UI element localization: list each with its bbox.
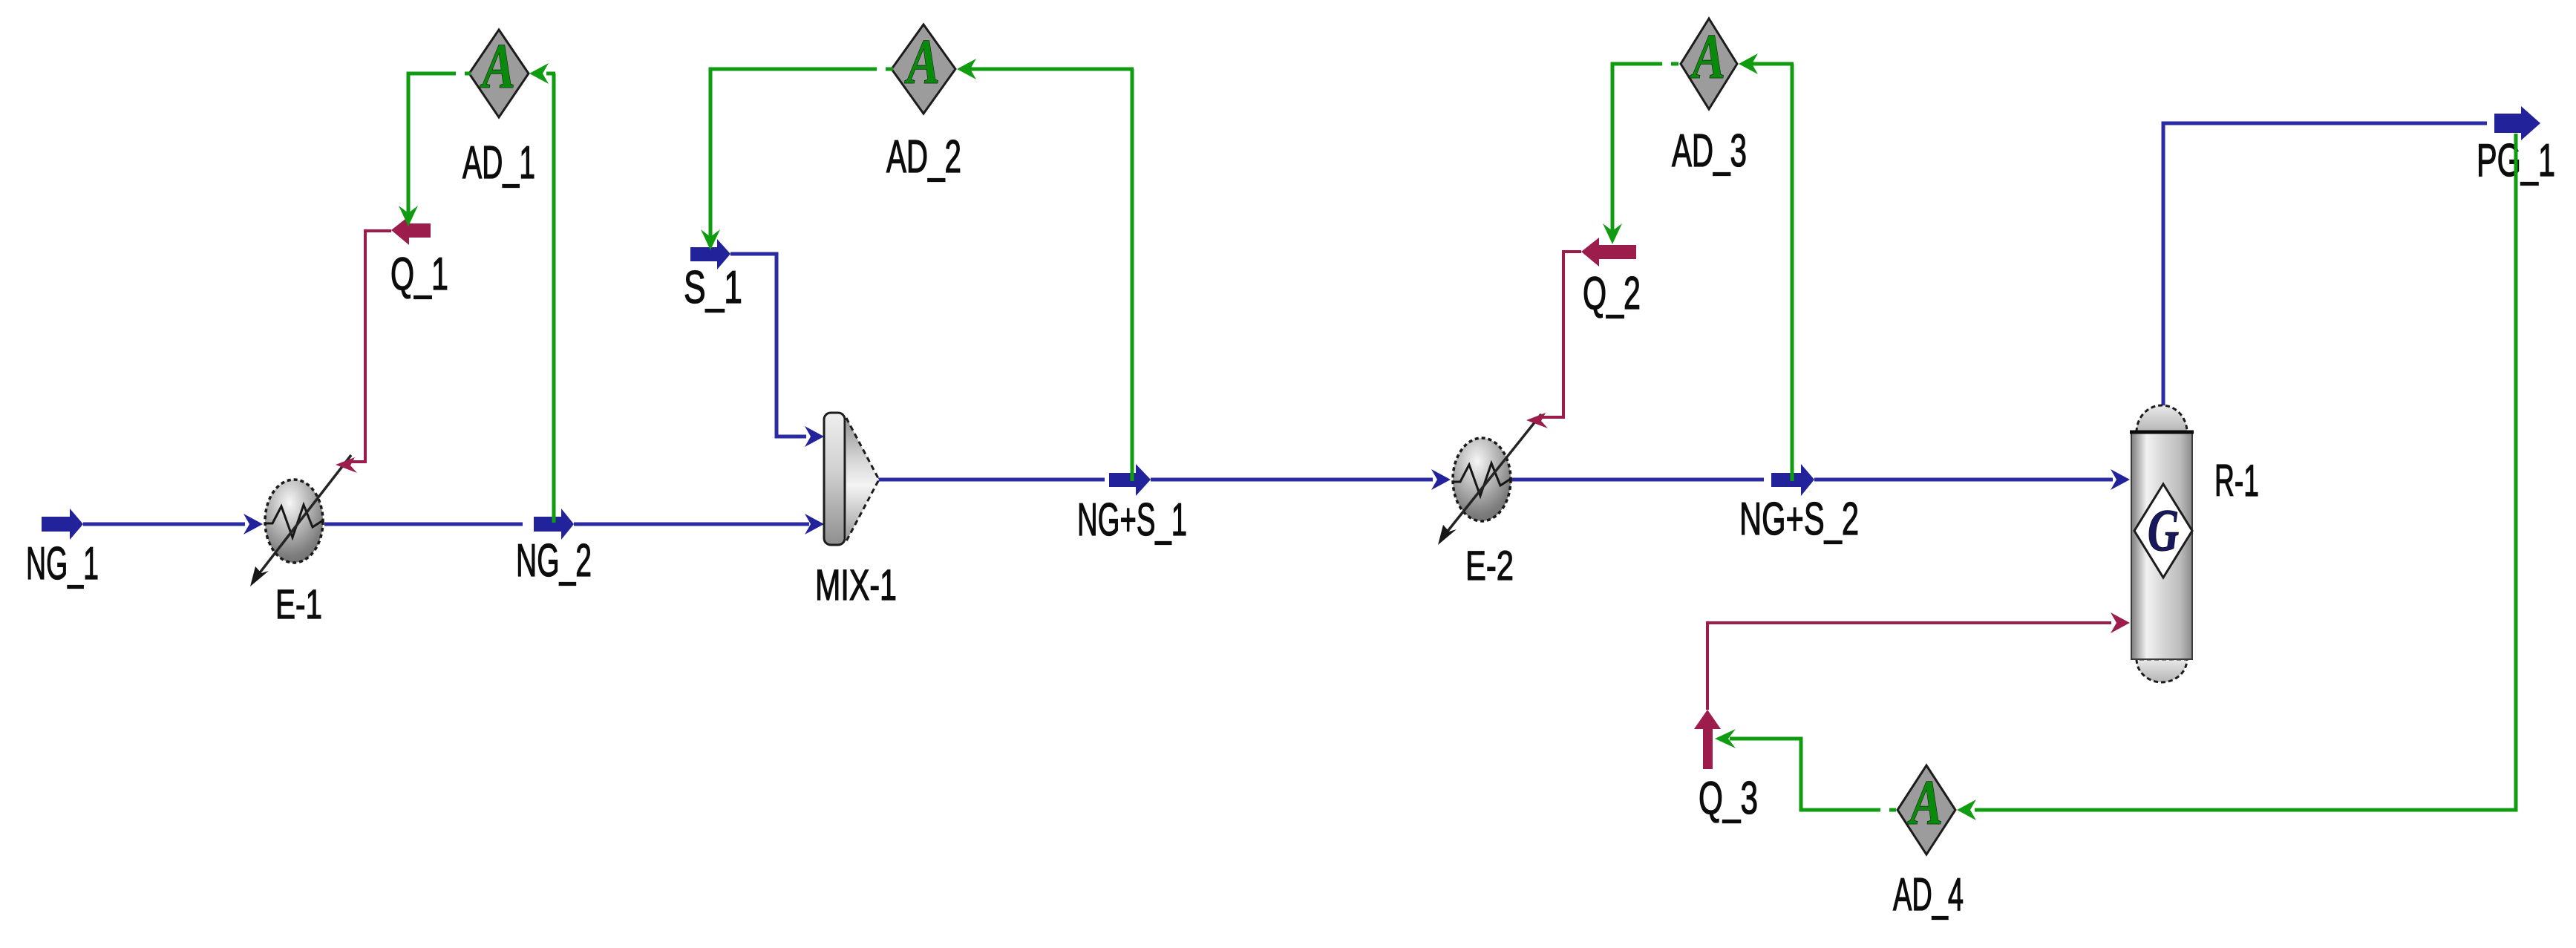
wire NG+S_2 to R-1 <box>1814 478 2113 482</box>
green arrowhead into AD_1 <box>529 63 549 84</box>
svg-text:A: A <box>1690 21 1725 92</box>
inline arrow into R-1 feed <box>2111 469 2130 490</box>
arrowhead Q_1 into E-1 <box>336 457 357 473</box>
wire NG_2 to MIX-1 <box>574 523 809 526</box>
svg-text:AD_2: AD_2 <box>886 131 961 183</box>
svg-text:A: A <box>1907 767 1943 838</box>
svg-text:NG_1: NG_1 <box>26 538 99 589</box>
svg-text:Q_3: Q_3 <box>1699 773 1758 824</box>
green arrowhead into AD_2 <box>957 59 976 79</box>
green net AD_1 right wire <box>552 73 556 523</box>
svg-text:NG+S_1: NG+S_1 <box>1077 494 1187 546</box>
adjust AD_3 <box>1681 19 1737 109</box>
svg-text:A: A <box>480 30 515 102</box>
green arrowhead into AD_3 <box>1739 53 1758 74</box>
reactor R-1 <box>2130 405 2194 682</box>
wire NG+S_1 to E-2 <box>1151 478 1433 482</box>
stream NG_2 arrow <box>534 509 574 540</box>
svg-text:Q_2: Q_2 <box>1583 268 1641 319</box>
green net AD_3 left wire <box>1612 64 1662 235</box>
svg-text:AD_4: AD_4 <box>1893 869 1964 921</box>
svg-text:AD_3: AD_3 <box>1672 125 1747 177</box>
inline arrow Q_3 into R-1 <box>2111 612 2130 633</box>
green arrowhead into Q_3 <box>1715 729 1736 748</box>
green net AD_2 left wire <box>710 69 877 241</box>
wire E-1 to NG_2 <box>324 523 523 526</box>
green net AD_1 left wire <box>408 73 456 220</box>
wire S_1 to MIX-1 top inlet <box>730 254 806 437</box>
heat exchanger E-2 <box>1438 414 1541 545</box>
svg-text:R-1: R-1 <box>2214 456 2259 506</box>
energy stream Q_2 arrow <box>1581 238 1636 267</box>
svg-text:AD_1: AD_1 <box>462 137 535 189</box>
wire MIX-1 outlet to NG+S_1 <box>876 478 1105 482</box>
svg-text:MIX-1: MIX-1 <box>815 561 897 609</box>
green arrowhead into Q_2 <box>1603 223 1622 244</box>
energy stream Q_3 arrow <box>1694 710 1721 769</box>
wire E-2 to NG+S_2 <box>1511 478 1764 482</box>
G diamond of R-1 <box>2134 484 2192 578</box>
stream NG+S_1 arrow <box>1109 464 1151 496</box>
svg-text:E-1: E-1 <box>275 581 322 627</box>
green net AD_3 right wire <box>1791 64 1794 481</box>
energy stream Q_1 arrow <box>391 216 431 245</box>
inline arrow into MIX-1 bottom inlet <box>805 514 824 535</box>
stream S_1 arrow <box>690 239 730 269</box>
wire R-1 top outlet to PG_1 <box>2163 123 2487 407</box>
arrowhead Q_2 into E-2 <box>1526 413 1548 428</box>
wire Q_2 to E-2 <box>1540 252 1581 417</box>
adjust AD_2 <box>892 24 955 114</box>
green arrowhead into Q_1 <box>399 206 418 226</box>
svg-text:NG_2: NG_2 <box>516 535 592 586</box>
mixer MIX-1 <box>824 413 879 545</box>
heat exchanger E-1 <box>250 455 351 586</box>
stream NG_1 arrow <box>42 509 83 540</box>
svg-text:NG+S_2: NG+S_2 <box>1739 494 1859 545</box>
green net AD_4 left wire <box>1730 739 1880 810</box>
wire NG_1 to E-1 <box>83 523 245 526</box>
green arrowhead into S_1 <box>701 229 720 250</box>
inline arrow into E-2 <box>1431 469 1451 490</box>
inline arrow into MIX-1 top inlet <box>805 426 824 447</box>
stream NG+S_2 arrow <box>1771 464 1814 496</box>
svg-text:G: G <box>2148 498 2179 563</box>
svg-text:Q_1: Q_1 <box>390 249 448 300</box>
svg-text:A: A <box>904 26 940 97</box>
green arrowhead into AD_4 <box>1957 800 1976 820</box>
adjust AD_1 <box>469 30 529 117</box>
wire Q_3 to R-1 <box>1707 623 2111 710</box>
adjust AD_4 <box>1897 765 1955 854</box>
inline arrow into E-1 <box>243 514 263 535</box>
green net AD_2 right wire <box>1131 69 1134 481</box>
wire Q_1 to E-1 <box>350 231 391 462</box>
green net AD_4 right wire from PG_1 <box>1975 134 2516 810</box>
stream PG_1 arrow <box>2494 106 2540 140</box>
green dash at AD_1 left tip <box>465 72 471 76</box>
svg-text:S_1: S_1 <box>684 262 742 313</box>
svg-text:E-2: E-2 <box>1465 542 1514 589</box>
